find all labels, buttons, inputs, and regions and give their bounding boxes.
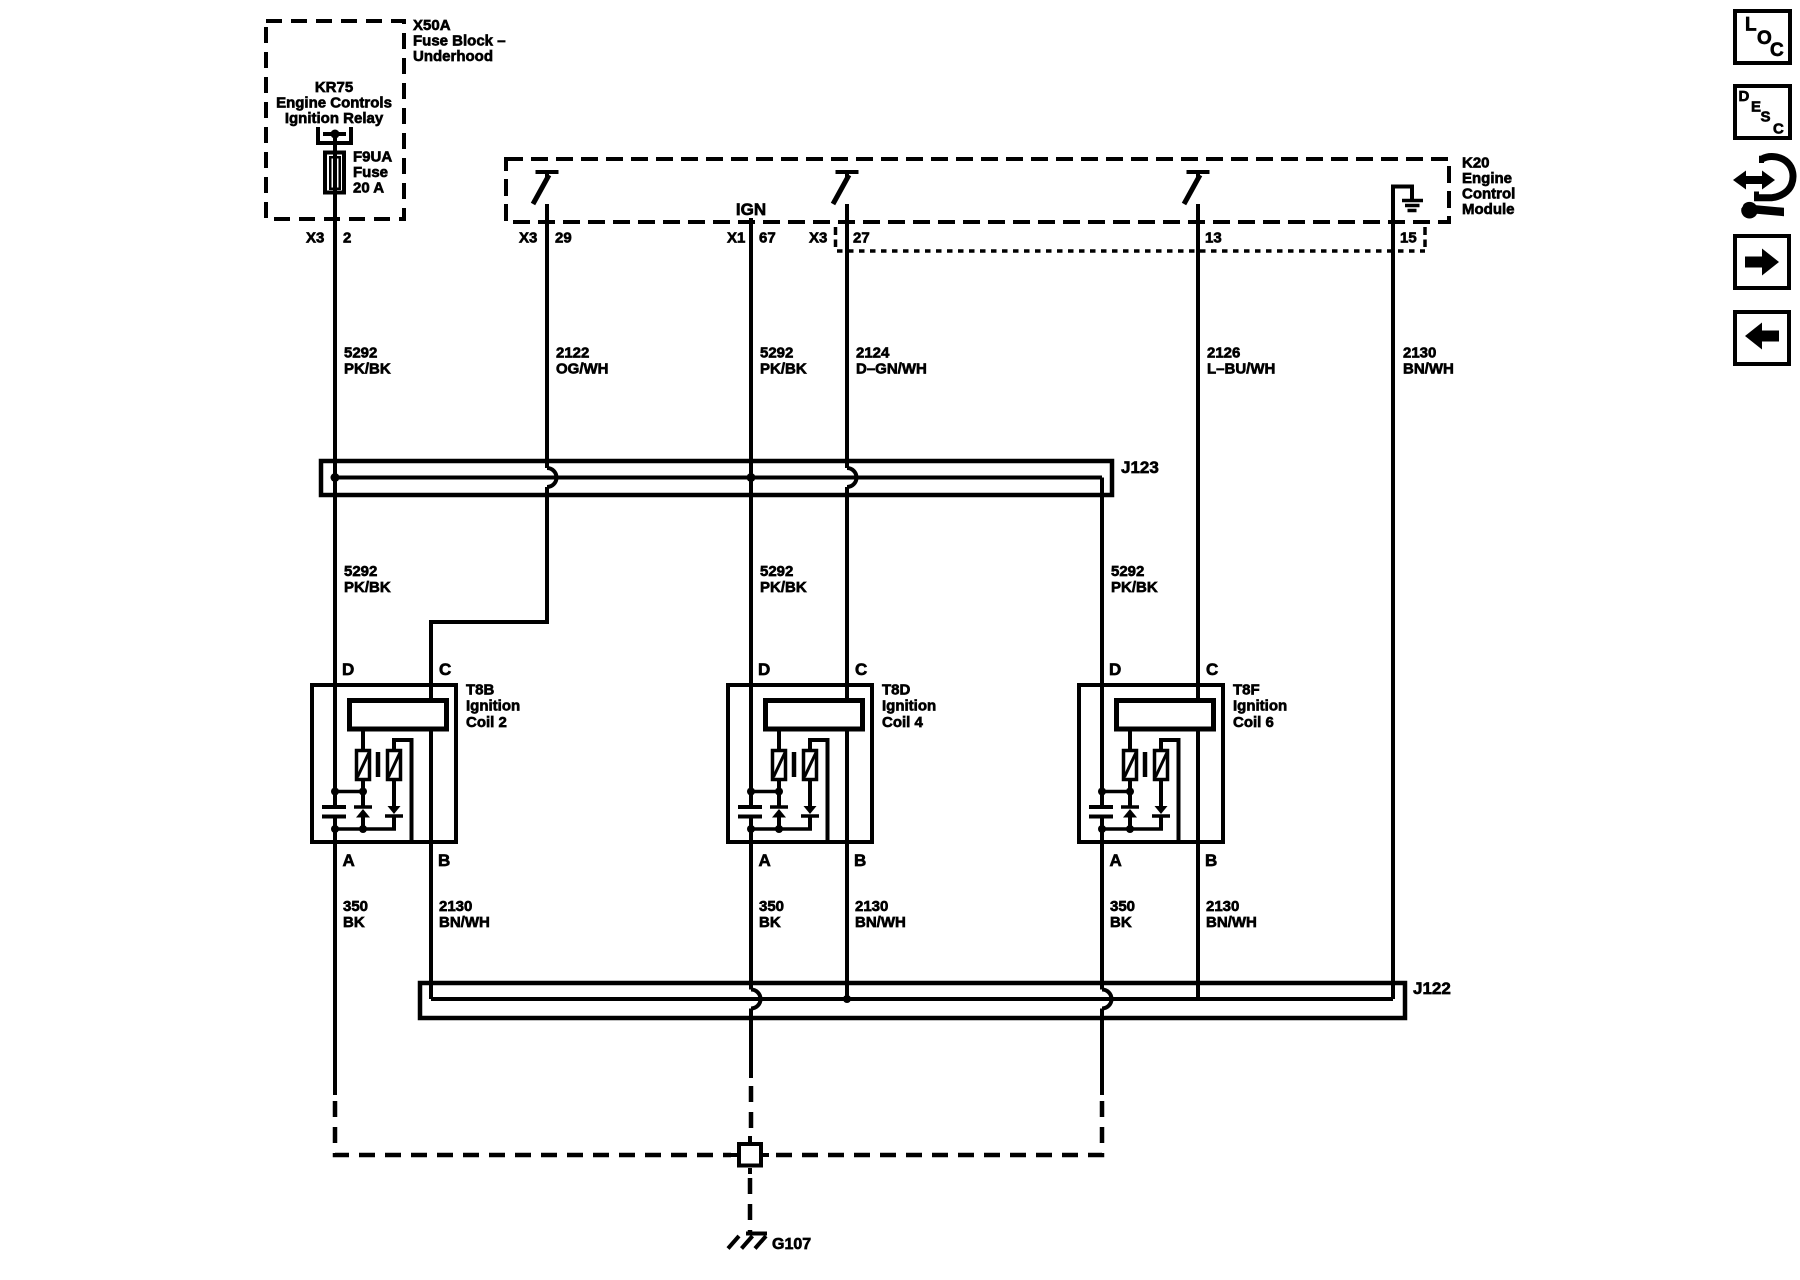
svg-text:C: C [1206,660,1218,679]
svg-text:PK/BK: PK/BK [1111,579,1158,596]
svg-text:X50A: X50A [413,17,451,34]
svg-text:F9UA: F9UA [353,149,392,166]
svg-text:PK/BK: PK/BK [760,579,807,596]
svg-text:2130: 2130 [855,898,888,915]
svg-text:Engine: Engine [1462,170,1512,187]
svg-text:13: 13 [1205,230,1222,247]
svg-text:Ignition: Ignition [466,698,520,715]
svg-text:350: 350 [1110,898,1135,915]
svg-text:G107: G107 [772,1236,811,1253]
svg-text:J123: J123 [1121,458,1159,477]
svg-text:Module: Module [1462,201,1515,218]
svg-text:Underhood: Underhood [413,48,493,65]
svg-text:D–GN/WH: D–GN/WH [856,361,927,378]
svg-text:Ignition Relay: Ignition Relay [285,110,384,127]
svg-text:Coil 4: Coil 4 [882,714,923,731]
svg-text:Engine Controls: Engine Controls [276,95,392,112]
svg-text:PK/BK: PK/BK [344,579,391,596]
svg-text:K20: K20 [1462,155,1490,172]
svg-text:2124: 2124 [856,345,890,362]
svg-text:X3: X3 [519,230,537,247]
svg-text:2: 2 [343,230,351,247]
svg-text:350: 350 [343,898,368,915]
svg-text:C: C [855,660,867,679]
svg-text:C: C [439,660,451,679]
svg-text:C: C [1773,121,1784,138]
svg-text:5292: 5292 [1111,563,1144,580]
svg-text:2130: 2130 [1403,345,1436,362]
svg-text:PK/BK: PK/BK [344,361,391,378]
svg-text:2126: 2126 [1207,345,1240,362]
svg-text:5292: 5292 [344,563,377,580]
svg-text:27: 27 [853,230,870,247]
svg-text:D: D [1739,88,1750,105]
svg-text:Ignition: Ignition [882,698,936,715]
svg-text:B: B [1205,851,1217,870]
svg-text:Control: Control [1462,186,1515,203]
svg-text:5292: 5292 [760,563,793,580]
svg-text:X1: X1 [727,230,745,247]
svg-text:Fuse: Fuse [353,164,388,181]
svg-text:5292: 5292 [344,345,377,362]
svg-text:5292: 5292 [760,345,793,362]
svg-text:A: A [759,851,771,870]
svg-text:20 A: 20 A [353,180,384,197]
svg-text:OG/WH: OG/WH [556,361,609,378]
svg-text:BN/WH: BN/WH [1403,361,1454,378]
svg-text:J122: J122 [1413,979,1451,998]
svg-text:X3: X3 [306,230,324,247]
svg-text:BN/WH: BN/WH [855,914,906,931]
svg-text:C: C [1770,40,1784,61]
svg-text:29: 29 [555,230,572,247]
svg-text:X3: X3 [809,230,827,247]
svg-text:2130: 2130 [439,898,472,915]
svg-text:BN/WH: BN/WH [1206,914,1257,931]
svg-text:T8F: T8F [1233,682,1260,699]
svg-text:D: D [342,660,354,679]
svg-text:A: A [1110,851,1122,870]
svg-text:67: 67 [759,230,776,247]
svg-text:350: 350 [759,898,784,915]
svg-text:BN/WH: BN/WH [439,914,490,931]
svg-text:B: B [854,851,866,870]
svg-text:2130: 2130 [1206,898,1239,915]
svg-text:L–BU/WH: L–BU/WH [1207,361,1275,378]
svg-text:BK: BK [759,914,781,931]
svg-text:S: S [1761,109,1771,126]
svg-text:D: D [1109,660,1121,679]
svg-text:2122: 2122 [556,345,589,362]
svg-text:T8D: T8D [882,682,911,699]
svg-text:Coil 2: Coil 2 [466,714,507,731]
svg-text:IGN: IGN [736,200,766,219]
svg-text:A: A [343,851,355,870]
svg-text:PK/BK: PK/BK [760,361,807,378]
svg-text:KR75: KR75 [315,79,353,96]
svg-text:BK: BK [1110,914,1132,931]
svg-text:Fuse Block –: Fuse Block – [413,33,506,50]
svg-text:Coil 6: Coil 6 [1233,714,1274,731]
svg-text:T8B: T8B [466,682,495,699]
svg-text:D: D [758,660,770,679]
svg-text:Ignition: Ignition [1233,698,1287,715]
svg-text:L: L [1745,15,1757,36]
svg-text:B: B [438,851,450,870]
svg-text:BK: BK [343,914,365,931]
svg-text:15: 15 [1400,230,1417,247]
svg-text:E: E [1751,99,1761,116]
